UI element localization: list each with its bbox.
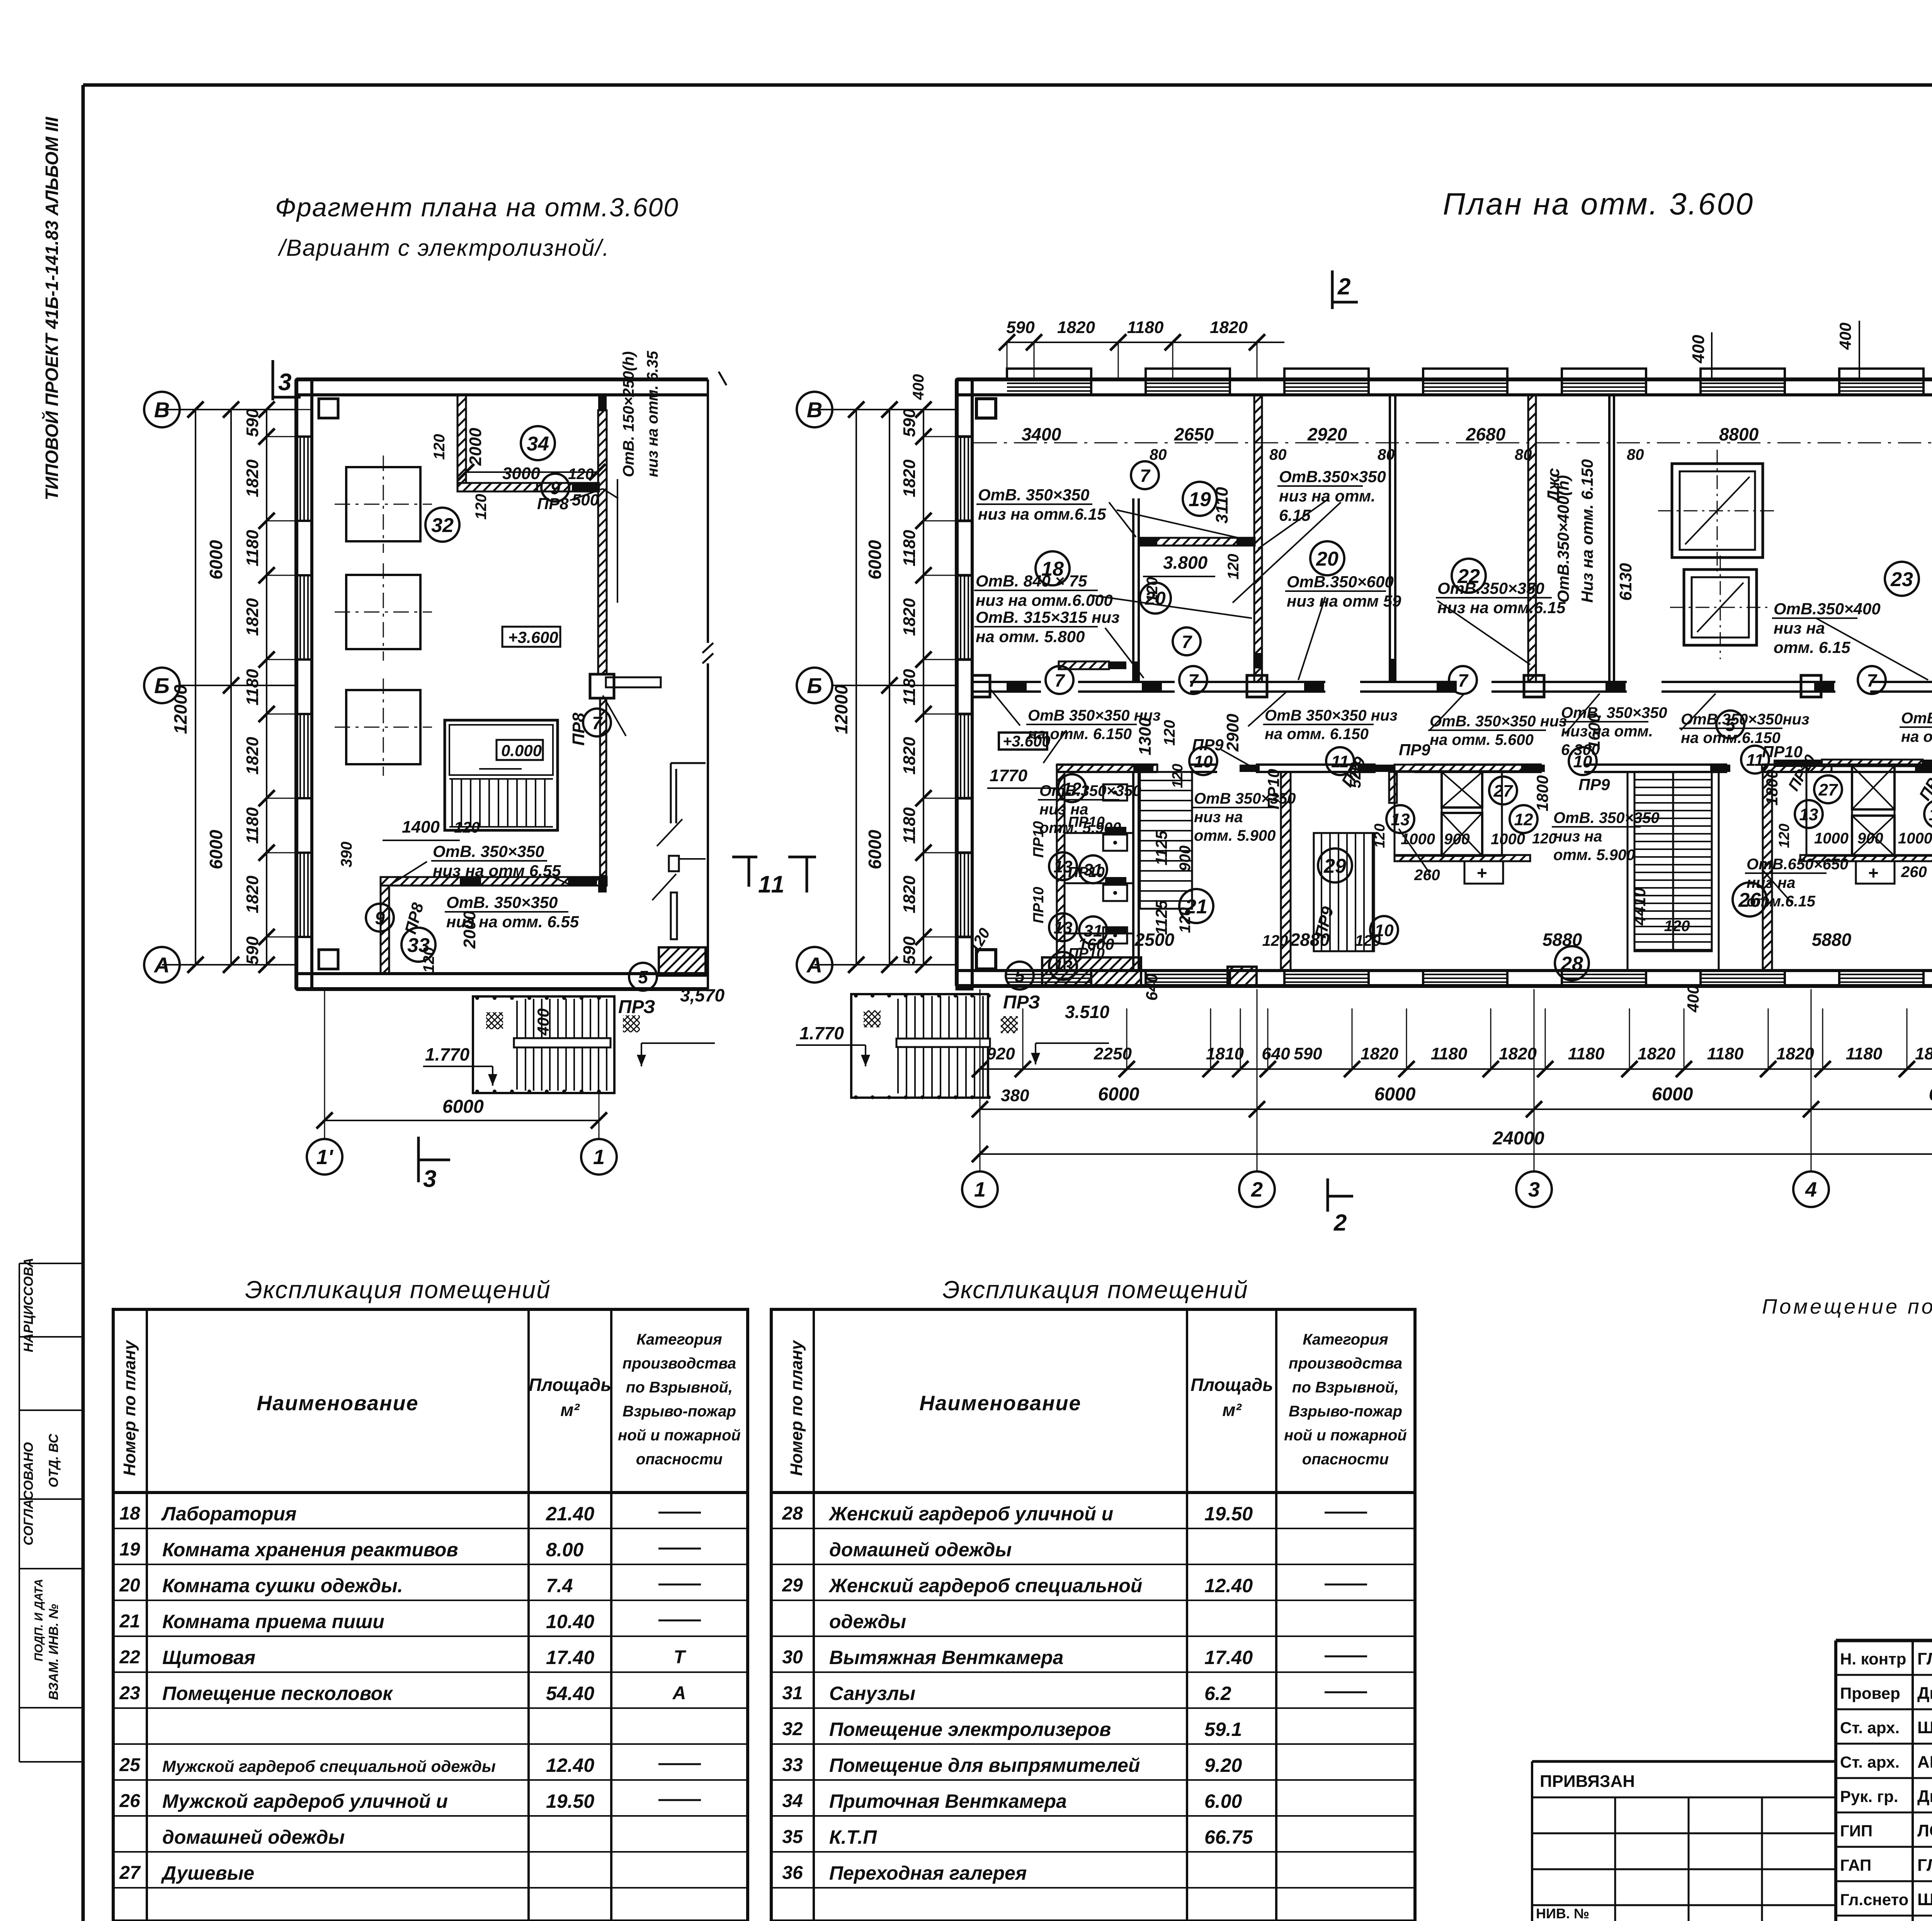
svg-text:120: 120 — [1532, 831, 1556, 847]
svg-text:А: А — [672, 1683, 686, 1703]
svg-text:ОтВ.350×350: ОтВ.350×350 — [1039, 782, 1141, 799]
svg-text:1820: 1820 — [1499, 1044, 1537, 1063]
svg-text:1820: 1820 — [243, 737, 262, 775]
svg-text:низ на: низ на — [1774, 619, 1825, 637]
svg-text:590: 590 — [900, 936, 919, 965]
svg-text:1400: 1400 — [402, 818, 440, 836]
svg-text:80: 80 — [1269, 446, 1287, 463]
svg-text:7: 7 — [592, 713, 603, 733]
svg-text:ОтВ. 350×350 низ: ОтВ. 350×350 низ — [1430, 713, 1567, 730]
svg-text:Категория: Категория — [1303, 1331, 1388, 1348]
svg-text:опасности: опасности — [1302, 1451, 1389, 1468]
svg-text:ОтВ. 150×250(h): ОтВ. 150×250(h) — [620, 351, 637, 477]
svg-text:10: 10 — [1194, 752, 1213, 771]
svg-text:Санузлы: Санузлы — [829, 1683, 915, 1704]
svg-text:7: 7 — [1140, 466, 1151, 486]
svg-text:400: 400 — [1836, 323, 1854, 350]
svg-text:1300: 1300 — [1136, 717, 1155, 755]
svg-text:2650: 2650 — [1174, 424, 1214, 444]
svg-text:низ на отм 59: низ на отм 59 — [1287, 592, 1401, 610]
svg-text:по Взрывной,: по Взрывной, — [626, 1379, 733, 1396]
svg-text:ОтВ. 350×350: ОтВ. 350×350 — [1553, 809, 1660, 826]
svg-text:500: 500 — [572, 491, 599, 509]
svg-text:Мужской гардероб специальной о: Мужской гардероб специальной одежды — [162, 1757, 496, 1775]
svg-text:34: 34 — [527, 433, 549, 455]
svg-text:120: 120 — [1372, 824, 1388, 848]
svg-text:66.75: 66.75 — [1204, 1826, 1253, 1848]
svg-text:5: 5 — [1725, 715, 1736, 735]
svg-text:13: 13 — [1054, 857, 1073, 876]
svg-text:1820: 1820 — [900, 737, 919, 775]
svg-text:36: 36 — [782, 1863, 803, 1883]
svg-text:22: 22 — [1457, 565, 1480, 588]
svg-text:120: 120 — [454, 819, 480, 836]
svg-text:Гл.снето: Гл.снето — [1840, 1890, 1908, 1909]
svg-text:1: 1 — [771, 871, 784, 898]
svg-text:1180: 1180 — [1431, 1044, 1468, 1063]
svg-text:Низ на отм. 6.150: Низ на отм. 6.150 — [1578, 459, 1596, 603]
svg-text:1125: 1125 — [1152, 830, 1170, 865]
svg-text:29: 29 — [1323, 855, 1346, 877]
svg-text:10: 10 — [1573, 752, 1592, 771]
svg-text:отм. 5.900: отм. 5.900 — [1553, 847, 1635, 864]
svg-text:3: 3 — [1528, 1178, 1540, 1201]
svg-text:ПР10: ПР10 — [1264, 769, 1282, 809]
svg-text:ОтВ.350×350: ОтВ.350×350 — [1279, 467, 1386, 486]
svg-text:26: 26 — [119, 1791, 140, 1811]
svg-text:1180: 1180 — [1846, 1044, 1883, 1063]
svg-text:59.1: 59.1 — [1204, 1719, 1242, 1740]
svg-text:ОтВ 350×350 низ: ОтВ 350×350 низ — [1265, 707, 1398, 724]
svg-text:СОГЛАСОВАНО: СОГЛАСОВАНО — [21, 1442, 36, 1545]
svg-text:7: 7 — [1867, 670, 1878, 690]
svg-text:20: 20 — [119, 1575, 140, 1596]
svg-text:7: 7 — [1458, 670, 1469, 690]
svg-text:ШАПИРО: ШАПИРО — [1917, 1890, 1932, 1909]
svg-text:12: 12 — [1063, 779, 1082, 798]
svg-text:1820: 1820 — [1915, 1044, 1932, 1063]
svg-text:380: 380 — [1001, 1086, 1029, 1105]
svg-text:Взрыво-пожар: Взрыво-пожар — [1289, 1403, 1402, 1420]
svg-text:6000: 6000 — [442, 1096, 484, 1117]
svg-text:ОтВ. 350×350: ОтВ. 350×350 — [1561, 704, 1667, 721]
svg-text:21: 21 — [1185, 896, 1207, 918]
svg-text:на отм. 6.150: на отм. 6.150 — [1265, 726, 1369, 743]
svg-text:ПРЗ: ПРЗ — [1003, 992, 1040, 1013]
svg-text:опасности: опасности — [636, 1451, 723, 1468]
svg-text:1180: 1180 — [900, 669, 919, 705]
svg-text:12: 12 — [1929, 805, 1932, 824]
svg-text:К.Т.П: К.Т.П — [829, 1826, 877, 1848]
svg-text:31: 31 — [782, 1683, 803, 1703]
svg-text:АБАШИНА: АБАШИНА — [1917, 1753, 1932, 1771]
svg-text:ПР8: ПР8 — [569, 712, 588, 746]
svg-text:31: 31 — [1084, 921, 1103, 940]
svg-text:на отм.6.300: на отм.6.300 — [1901, 728, 1932, 745]
svg-text:низ на: низ на — [1039, 801, 1088, 818]
svg-text:Комната сушки одежды.: Комната сушки одежды. — [162, 1575, 403, 1596]
svg-text:4410: 4410 — [1630, 887, 1649, 926]
svg-text:2: 2 — [1333, 1210, 1347, 1236]
svg-text:ПРИВЯЗАН: ПРИВЯЗАН — [1540, 1772, 1635, 1791]
svg-text:5: 5 — [638, 967, 648, 987]
svg-text:Приточная Венткамера: Приточная Венткамера — [829, 1790, 1067, 1812]
svg-text:13: 13 — [1799, 805, 1818, 824]
svg-text:ОТД. ВС: ОТД. ВС — [46, 1434, 61, 1487]
svg-text:33: 33 — [407, 934, 430, 957]
svg-text:21.40: 21.40 — [546, 1503, 594, 1525]
svg-text:17.40: 17.40 — [546, 1647, 594, 1668]
svg-text:+3.600: +3.600 — [508, 628, 558, 646]
svg-text:120: 120 — [473, 494, 490, 520]
svg-text:34: 34 — [782, 1791, 803, 1811]
svg-text:Мужской гардероб уличной и: Мужской гардероб уличной и — [162, 1790, 448, 1812]
svg-text:23: 23 — [1890, 568, 1913, 591]
svg-text:29: 29 — [782, 1575, 803, 1596]
svg-text:20: 20 — [1316, 548, 1338, 570]
svg-text:1000: 1000 — [1814, 830, 1849, 847]
svg-text:1.770: 1.770 — [799, 1023, 844, 1043]
svg-text:отм. 5.900: отм. 5.900 — [1194, 827, 1276, 844]
svg-text:5: 5 — [1015, 966, 1025, 986]
svg-text:Двойнина: Двойнина — [1917, 1787, 1932, 1806]
svg-text:9: 9 — [375, 908, 385, 928]
svg-text:Вытяжная Венткамера: Вытяжная Венткамера — [829, 1647, 1063, 1668]
svg-text:400: 400 — [910, 374, 927, 400]
svg-text:590: 590 — [1294, 1044, 1322, 1063]
svg-text:120: 120 — [431, 434, 448, 460]
svg-text:33: 33 — [782, 1755, 803, 1775]
svg-text:4: 4 — [1805, 1178, 1817, 1201]
svg-text:19: 19 — [1189, 488, 1211, 511]
svg-text:120: 120 — [1161, 720, 1178, 746]
svg-text:1': 1' — [316, 1146, 334, 1169]
svg-text:25: 25 — [119, 1755, 141, 1775]
svg-text:6000: 6000 — [206, 830, 226, 869]
svg-text:10: 10 — [1375, 921, 1394, 940]
svg-text:низ на отм.6.000: низ на отм.6.000 — [976, 591, 1113, 609]
svg-text:12000: 12000 — [831, 685, 851, 734]
svg-text:7: 7 — [1054, 670, 1065, 690]
svg-text:120: 120 — [1225, 554, 1242, 580]
svg-text:6000: 6000 — [1652, 1084, 1693, 1105]
svg-text:7.4: 7.4 — [546, 1575, 573, 1596]
svg-text:низ на отм. 6.35: низ на отм. 6.35 — [644, 350, 661, 477]
svg-text:27: 27 — [119, 1863, 141, 1883]
svg-text:производства: производства — [1289, 1355, 1402, 1372]
svg-text:1.770: 1.770 — [425, 1044, 470, 1064]
svg-text:+: + — [1477, 863, 1487, 883]
svg-text:12: 12 — [1514, 810, 1533, 829]
svg-text:ЛОУЦКЕР: ЛОУЦКЕР — [1917, 1821, 1932, 1840]
svg-text:1770: 1770 — [990, 766, 1027, 785]
svg-text:Взрыво-пожар: Взрыво-пожар — [622, 1403, 736, 1420]
svg-text:м²: м² — [1222, 1400, 1242, 1420]
svg-text:НИВ. №: НИВ. № — [1536, 1906, 1589, 1921]
svg-text:19: 19 — [119, 1539, 140, 1560]
svg-text:640: 640 — [1262, 1044, 1290, 1063]
svg-text:22: 22 — [119, 1647, 140, 1668]
svg-text:24000: 24000 — [1492, 1128, 1544, 1149]
svg-text:+: + — [1868, 863, 1879, 883]
svg-text:8.00: 8.00 — [546, 1539, 584, 1561]
svg-text:6000: 6000 — [865, 540, 885, 580]
svg-text:Щитовая: Щитовая — [162, 1647, 255, 1668]
svg-text:6130: 6130 — [1616, 563, 1635, 601]
svg-text:1820: 1820 — [243, 459, 262, 497]
svg-text:ГИП: ГИП — [1840, 1822, 1872, 1840]
svg-text:низ на отм.: низ на отм. — [1279, 487, 1376, 505]
svg-text:ОтВ. 350×350: ОтВ. 350×350 — [433, 842, 544, 860]
svg-text:ПРЗ: ПРЗ — [618, 997, 655, 1017]
svg-text:120: 120 — [1776, 824, 1793, 848]
svg-text:32: 32 — [431, 514, 454, 537]
svg-text:Б: Б — [154, 673, 170, 698]
svg-text:1820: 1820 — [1638, 1044, 1675, 1063]
svg-text:домашней одежды: домашней одежды — [829, 1539, 1012, 1561]
svg-text:260: 260 — [1901, 864, 1927, 881]
svg-text:ВЗАМ. ИНВ. №: ВЗАМ. ИНВ. № — [46, 1604, 61, 1700]
svg-text:Н. контр: Н. контр — [1840, 1650, 1906, 1668]
svg-text:1810: 1810 — [1206, 1044, 1244, 1063]
svg-text:Двойнина: Двойнина — [1917, 1684, 1932, 1703]
svg-text:26: 26 — [1738, 889, 1761, 911]
svg-text:Ст. арх.: Ст. арх. — [1840, 1753, 1900, 1771]
svg-text:Женский гардероб специальной: Женский гардероб специальной — [828, 1575, 1142, 1596]
svg-text:590: 590 — [243, 936, 262, 965]
svg-text:ОтВ. 315×315 низ: ОтВ. 315×315 низ — [976, 608, 1119, 626]
svg-text:ГЛЕБОВ: ГЛЕБОВ — [1917, 1856, 1932, 1875]
svg-text:900: 900 — [1177, 845, 1194, 871]
svg-text:на отм. 5.600: на отм. 5.600 — [1430, 731, 1534, 748]
svg-text:590: 590 — [900, 408, 919, 437]
svg-text:2000: 2000 — [460, 911, 479, 949]
svg-text:1820: 1820 — [1361, 1044, 1398, 1063]
svg-text:Помещение песколовок: Помещение песколовок — [162, 1683, 393, 1704]
svg-text:2920: 2920 — [1307, 424, 1347, 444]
svg-text:низ на отм 6.55: низ на отм 6.55 — [433, 862, 561, 880]
svg-text:19.50: 19.50 — [1204, 1503, 1253, 1525]
svg-text:8800: 8800 — [1719, 424, 1759, 444]
svg-text:0.000: 0.000 — [501, 741, 542, 760]
svg-text:2900: 2900 — [1223, 714, 1242, 752]
svg-text:1820: 1820 — [1776, 1044, 1814, 1063]
svg-text:18: 18 — [1041, 558, 1064, 580]
svg-text:ШИЛОВА: ШИЛОВА — [1917, 1718, 1932, 1737]
svg-text:1820: 1820 — [1057, 318, 1095, 337]
svg-text:ПР9: ПР9 — [1192, 736, 1224, 754]
svg-text:Женский гардероб уличной и: Женский гардероб уличной и — [828, 1503, 1113, 1525]
svg-text:27: 27 — [1818, 780, 1838, 799]
svg-text:ной и пожарной: ной и пожарной — [1284, 1427, 1407, 1444]
svg-text:6000: 6000 — [206, 540, 226, 580]
svg-text:9: 9 — [550, 478, 560, 498]
svg-text:Номер по плану: Номер по плану — [787, 1340, 806, 1476]
svg-text:3: 3 — [278, 369, 291, 396]
svg-text:1: 1 — [593, 1146, 605, 1169]
svg-text:6.2: 6.2 — [1204, 1683, 1231, 1704]
svg-text:2000: 2000 — [466, 428, 485, 466]
svg-text:Переходная галерея: Переходная галерея — [829, 1862, 1027, 1884]
svg-text:ПОДП. И ДАТА: ПОДП. И ДАТА — [32, 1579, 45, 1662]
svg-text:Провер: Провер — [1840, 1684, 1900, 1702]
svg-text:ПР9: ПР9 — [1399, 741, 1430, 759]
svg-text:отм. 6.15: отм. 6.15 — [1774, 638, 1850, 656]
svg-text:Комната хранения реактивов: Комната хранения реактивов — [162, 1539, 458, 1561]
svg-text:3: 3 — [423, 1166, 436, 1192]
svg-text:80: 80 — [1515, 446, 1532, 463]
svg-text:11: 11 — [1331, 752, 1349, 771]
svg-text:Площадь: Площадь — [529, 1375, 611, 1395]
svg-text:3400: 3400 — [1022, 424, 1061, 444]
svg-text:13: 13 — [1054, 918, 1073, 937]
svg-text:7: 7 — [1188, 670, 1199, 690]
svg-text:низ на отм.6.15: низ на отм.6.15 — [978, 505, 1106, 523]
svg-text:3,570: 3,570 — [680, 985, 725, 1005]
svg-text:1820: 1820 — [243, 875, 262, 913]
svg-text:30: 30 — [782, 1647, 803, 1668]
svg-text:400: 400 — [1689, 335, 1708, 364]
svg-text:на отм. 6.150: на отм. 6.150 — [1028, 726, 1132, 743]
svg-text:28: 28 — [1560, 953, 1583, 975]
svg-text:54.40: 54.40 — [546, 1683, 594, 1704]
svg-text:31: 31 — [1084, 860, 1103, 879]
svg-text:6000: 6000 — [1098, 1084, 1139, 1105]
svg-text:18: 18 — [119, 1503, 140, 1524]
svg-text:1180: 1180 — [1568, 1044, 1605, 1063]
svg-text:2680: 2680 — [1466, 424, 1506, 444]
svg-text:1180: 1180 — [243, 530, 262, 566]
svg-text:12.40: 12.40 — [546, 1754, 594, 1776]
svg-text:по Взрывной,: по Взрывной, — [1292, 1379, 1399, 1396]
svg-text:ТИПОВОЙ ПРОЕКТ 41Б-1-141.83: ТИПОВОЙ ПРОЕКТ 41Б-1-141.83 АЛЬБОМ III — [42, 117, 62, 500]
svg-text:Душевые: Душевые — [161, 1862, 254, 1884]
svg-text:1: 1 — [974, 1178, 986, 1201]
svg-text:/Вариант с электролизной/.: /Вариант с электролизной/. — [277, 235, 610, 261]
svg-text:23: 23 — [119, 1683, 140, 1703]
svg-text:10.40: 10.40 — [546, 1611, 594, 1632]
svg-text:Ст. арх.: Ст. арх. — [1840, 1719, 1900, 1737]
svg-text:ПР9: ПР9 — [1578, 775, 1610, 794]
svg-text:1800: 1800 — [1533, 775, 1551, 811]
svg-text:920: 920 — [986, 1044, 1015, 1063]
svg-text:ОтВ. 350×350: ОтВ. 350×350 — [978, 486, 1089, 504]
svg-text:ОтВ. 840 × 75: ОтВ. 840 × 75 — [976, 572, 1087, 590]
svg-text:6000: 6000 — [1929, 1084, 1932, 1105]
svg-text:17.40: 17.40 — [1204, 1647, 1253, 1668]
svg-text:ПР10: ПР10 — [1031, 887, 1047, 923]
svg-text:Помещение для выпрямителей: Помещение для выпрямителей — [829, 1754, 1140, 1776]
svg-text:План на отм. 3.600: План на отм. 3.600 — [1443, 187, 1754, 221]
svg-text:Б: Б — [807, 673, 822, 698]
svg-text:Помещение электролизеров: Помещение электролизеров — [829, 1719, 1111, 1740]
svg-text:Т: Т — [673, 1647, 686, 1668]
svg-text:Рук. гр.: Рук. гр. — [1840, 1787, 1898, 1805]
svg-text:на отм. 5.800: на отм. 5.800 — [976, 627, 1085, 646]
svg-text:3.510: 3.510 — [1065, 1002, 1110, 1022]
svg-text:1125: 1125 — [1152, 900, 1170, 935]
svg-text:35: 35 — [782, 1827, 803, 1847]
svg-text:Площадь: Площадь — [1190, 1375, 1273, 1395]
svg-text:80: 80 — [1150, 446, 1167, 463]
svg-text:120: 120 — [1170, 764, 1186, 788]
svg-text:80: 80 — [1627, 446, 1644, 463]
svg-text:Наименование: Наименование — [257, 1392, 418, 1415]
svg-text:домашней одежды: домашней одежды — [162, 1826, 345, 1848]
svg-text:32: 32 — [782, 1719, 803, 1739]
svg-text:27: 27 — [1493, 782, 1514, 801]
svg-text:производства: производства — [622, 1355, 736, 1372]
svg-text:5880: 5880 — [1812, 930, 1852, 950]
svg-text:6.00: 6.00 — [1204, 1790, 1242, 1812]
svg-text:1000: 1000 — [1898, 830, 1932, 847]
svg-text:1180: 1180 — [900, 807, 919, 844]
svg-text:Категория: Категория — [636, 1331, 722, 1348]
svg-text:Экспликация помещений: Экспликация помещений — [245, 1276, 551, 1304]
svg-text:19.50: 19.50 — [546, 1790, 594, 1812]
svg-text:12000: 12000 — [170, 685, 190, 734]
svg-text:120: 120 — [1664, 918, 1690, 935]
svg-text:Наименование: Наименование — [919, 1392, 1081, 1415]
svg-text:ОтВ.350×400: ОтВ.350×400 — [1774, 600, 1881, 618]
svg-text:Экспликация помещений: Экспликация помещений — [942, 1276, 1248, 1304]
svg-text:1820: 1820 — [243, 598, 262, 636]
svg-text:900: 900 — [1444, 831, 1470, 848]
svg-text:11: 11 — [1746, 751, 1764, 770]
svg-text:Джс: Джс — [1544, 468, 1563, 504]
svg-text:НАРЦИССОВА: НАРЦИССОВА — [21, 1258, 36, 1352]
svg-text:Комната приема пиши: Комната приема пиши — [162, 1611, 384, 1632]
svg-text:590: 590 — [243, 408, 262, 437]
svg-text:900: 900 — [1857, 830, 1883, 847]
svg-text:1180: 1180 — [243, 807, 262, 844]
svg-text:Номер по плану: Номер по плану — [120, 1340, 139, 1476]
svg-text:9.20: 9.20 — [1204, 1754, 1242, 1776]
svg-text:ОтВ. 350×350: ОтВ. 350×350 — [446, 893, 558, 911]
svg-text:640: 640 — [1143, 974, 1161, 1001]
svg-text:низ на отм.: низ на отм. — [1561, 723, 1653, 740]
svg-text:1180: 1180 — [1707, 1044, 1744, 1063]
svg-text:80: 80 — [1378, 446, 1395, 463]
svg-text:ГЛЕБОВ: ГЛЕБОВ — [1917, 1649, 1932, 1668]
svg-text:2: 2 — [1251, 1178, 1263, 1201]
svg-text:1820: 1820 — [900, 598, 919, 636]
svg-text:13: 13 — [1391, 810, 1410, 829]
svg-text:низ на: низ на — [1553, 828, 1602, 845]
svg-text:ГАП: ГАП — [1840, 1856, 1871, 1874]
svg-text:1820: 1820 — [900, 875, 919, 913]
svg-text:1180: 1180 — [243, 669, 262, 705]
svg-text:1800: 1800 — [1763, 770, 1781, 806]
svg-text:ОтВ350×350 низ: ОтВ350×350 низ — [1901, 710, 1932, 727]
svg-text:м²: м² — [560, 1400, 580, 1420]
svg-text:13: 13 — [1054, 957, 1073, 976]
svg-text:2: 2 — [1337, 274, 1350, 299]
svg-text:одежды: одежды — [829, 1611, 906, 1632]
svg-text:1180: 1180 — [1127, 318, 1164, 337]
svg-text:120: 120 — [1262, 932, 1288, 949]
svg-text:1600: 1600 — [1585, 714, 1603, 750]
svg-text:Помещение поз. 35 замаркиров: Помещение поз. 35 замаркировано на листе… — [1762, 1295, 1932, 1318]
svg-text:400: 400 — [1684, 985, 1702, 1013]
svg-text:ОтВ.350×600: ОтВ.350×600 — [1287, 573, 1394, 591]
svg-text:1820: 1820 — [900, 459, 919, 497]
svg-text:21: 21 — [119, 1611, 140, 1632]
svg-text:3000: 3000 — [502, 464, 540, 483]
svg-text:1820: 1820 — [1210, 318, 1248, 337]
svg-text:3.800: 3.800 — [1163, 552, 1208, 573]
svg-text:низ на: низ на — [1194, 809, 1243, 826]
